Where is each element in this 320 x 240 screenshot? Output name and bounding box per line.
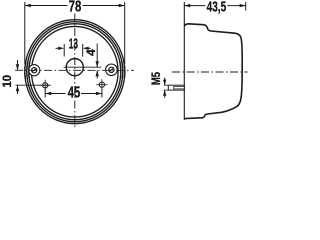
main horizontal centerline — [15, 69, 134, 71]
left lower mounting hole — [43, 83, 48, 88]
center hole horizontal crosshair — [64, 66, 102, 68]
svg-text:10: 10 — [2, 75, 14, 88]
right lower mounting hole — [99, 82, 104, 87]
rim rings across right boss — [25, 20, 125, 124]
svg-text:43,5: 43,5 — [207, 0, 227, 15]
main vertical centerline — [74, 14, 76, 128]
left screw boss — [29, 65, 40, 76]
side view mounting plane — [183, 2, 185, 120]
right lower hole cross — [96, 84, 107, 86]
right screw hole — [109, 67, 114, 72]
dimension 45: line — [45, 93, 65, 95]
svg-text:78: 78 — [69, 0, 82, 16]
dimension 78: arrows — [25, 4, 31, 7]
svg-text:4: 4 — [84, 49, 98, 56]
dimension 78: extension lines — [24, 2, 26, 64]
dimension 45: arrows — [45, 92, 51, 95]
lamp ring 2 — [27, 22, 123, 122]
left lower hole cross — [40, 84, 51, 86]
dimension 4: leader line — [96, 44, 98, 67]
M5 stud body — [168, 85, 184, 90]
M5 arrows — [164, 78, 166, 86]
dimension 45: extension lines — [44, 89, 46, 97]
svg-text:45: 45 — [68, 85, 81, 102]
left screw hole — [32, 68, 37, 73]
dimension 4: arrows — [96, 61, 99, 67]
dimension 43,5: right extension line — [245, 2, 247, 11]
right screw boss — [106, 64, 118, 76]
dimension 43,5: line — [184, 5, 205, 7]
lamp ring 3 — [29, 24, 121, 120]
svg-text:13: 13 — [69, 36, 78, 52]
rim rings across left boss — [25, 20, 125, 124]
M5 stud thread lines — [174, 87, 184, 89]
dimension 78: line — [25, 5, 67, 7]
lamp ring 4 (lens edge) — [32, 26, 119, 117]
right screw slot — [109, 68, 114, 71]
side view centerline — [172, 71, 248, 73]
side view body outline — [184, 24, 242, 119]
dimension 10: arrows — [17, 60, 19, 70]
dimension 13: arrow tails — [56, 47, 59, 49]
lamp outer ring 1 — [25, 20, 125, 124]
dimension 13: arrows — [58, 47, 64, 50]
dimension 43,5: arrows — [184, 4, 190, 7]
left screw slot — [32, 69, 37, 72]
dimension 13: extension lines — [63, 44, 65, 57]
dimension 10: lower reference line — [16, 84, 51, 86]
svg-text:M5: M5 — [149, 72, 163, 85]
M5 whisker ticks — [164, 84, 169, 86]
center hole (13mm) — [66, 59, 83, 76]
